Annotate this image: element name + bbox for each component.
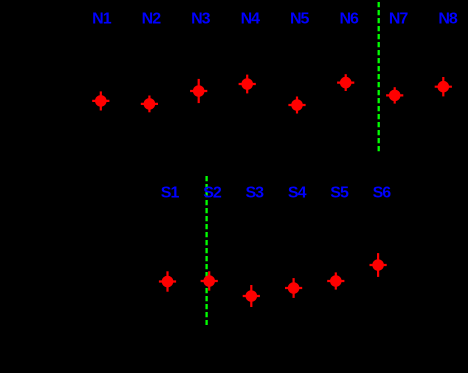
svg-text:S1: S1 (161, 184, 180, 201)
svg-text:N2: N2 (142, 10, 162, 27)
svg-text:S4: S4 (288, 184, 307, 201)
svg-text:S3: S3 (246, 184, 265, 201)
data point N5 (288, 97, 305, 114)
data point S2 (201, 271, 218, 290)
svg-text:N4: N4 (241, 10, 261, 27)
svg-text:N8: N8 (438, 10, 458, 27)
data point S6 (370, 253, 387, 277)
data point N6 (337, 74, 354, 91)
data point S3 (243, 285, 260, 307)
data point N1 (diamond with error bars) (92, 91, 109, 110)
data point N2 (141, 96, 158, 113)
svg-text:N7: N7 (389, 10, 409, 27)
data point N3 (190, 79, 207, 103)
green dashed vertical line (top panel) (378, 2, 380, 153)
data point S1 (159, 271, 176, 291)
svg-text:S2: S2 (203, 184, 222, 201)
svg-text:N5: N5 (290, 10, 310, 27)
svg-text:S6: S6 (373, 184, 392, 201)
data point N8 (435, 77, 452, 96)
data point N7 (386, 87, 403, 103)
data point S4 (285, 278, 302, 298)
data point N4 (239, 75, 256, 94)
svg-text:N1: N1 (92, 10, 112, 27)
svg-text:N3: N3 (191, 10, 211, 27)
svg-text:S5: S5 (330, 184, 349, 201)
svg-text:N6: N6 (339, 10, 359, 27)
green dashed vertical line (bottom panel) (205, 176, 207, 325)
data point S5 (327, 272, 344, 289)
